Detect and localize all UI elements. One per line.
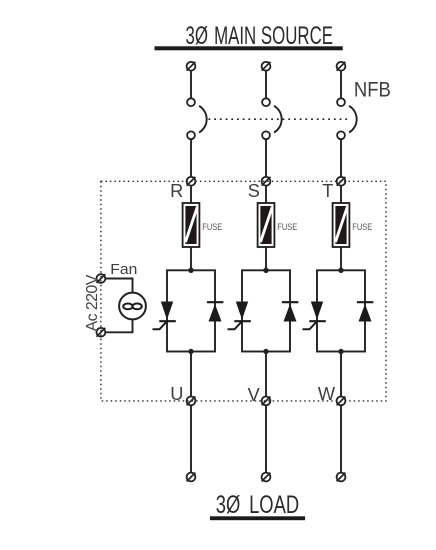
svg-text:FUSE: FUSE xyxy=(277,222,297,232)
svg-text:W: W xyxy=(318,384,336,404)
svg-text:FUSE: FUSE xyxy=(352,222,372,232)
svg-text:Ac 220V: Ac 220V xyxy=(84,274,101,331)
svg-text:Fan: Fan xyxy=(110,262,137,278)
svg-text:FUSE: FUSE xyxy=(202,222,222,232)
svg-text:3Ø LOAD: 3Ø LOAD xyxy=(216,491,299,519)
svg-text:R: R xyxy=(170,181,183,201)
svg-text:U: U xyxy=(170,384,183,404)
svg-text:NFB: NFB xyxy=(354,78,391,102)
svg-text:S: S xyxy=(248,181,260,201)
svg-text:V: V xyxy=(248,385,261,405)
svg-text:T: T xyxy=(322,181,333,201)
svg-text:3Ø MAIN SOURCE: 3Ø MAIN SOURCE xyxy=(186,23,334,50)
